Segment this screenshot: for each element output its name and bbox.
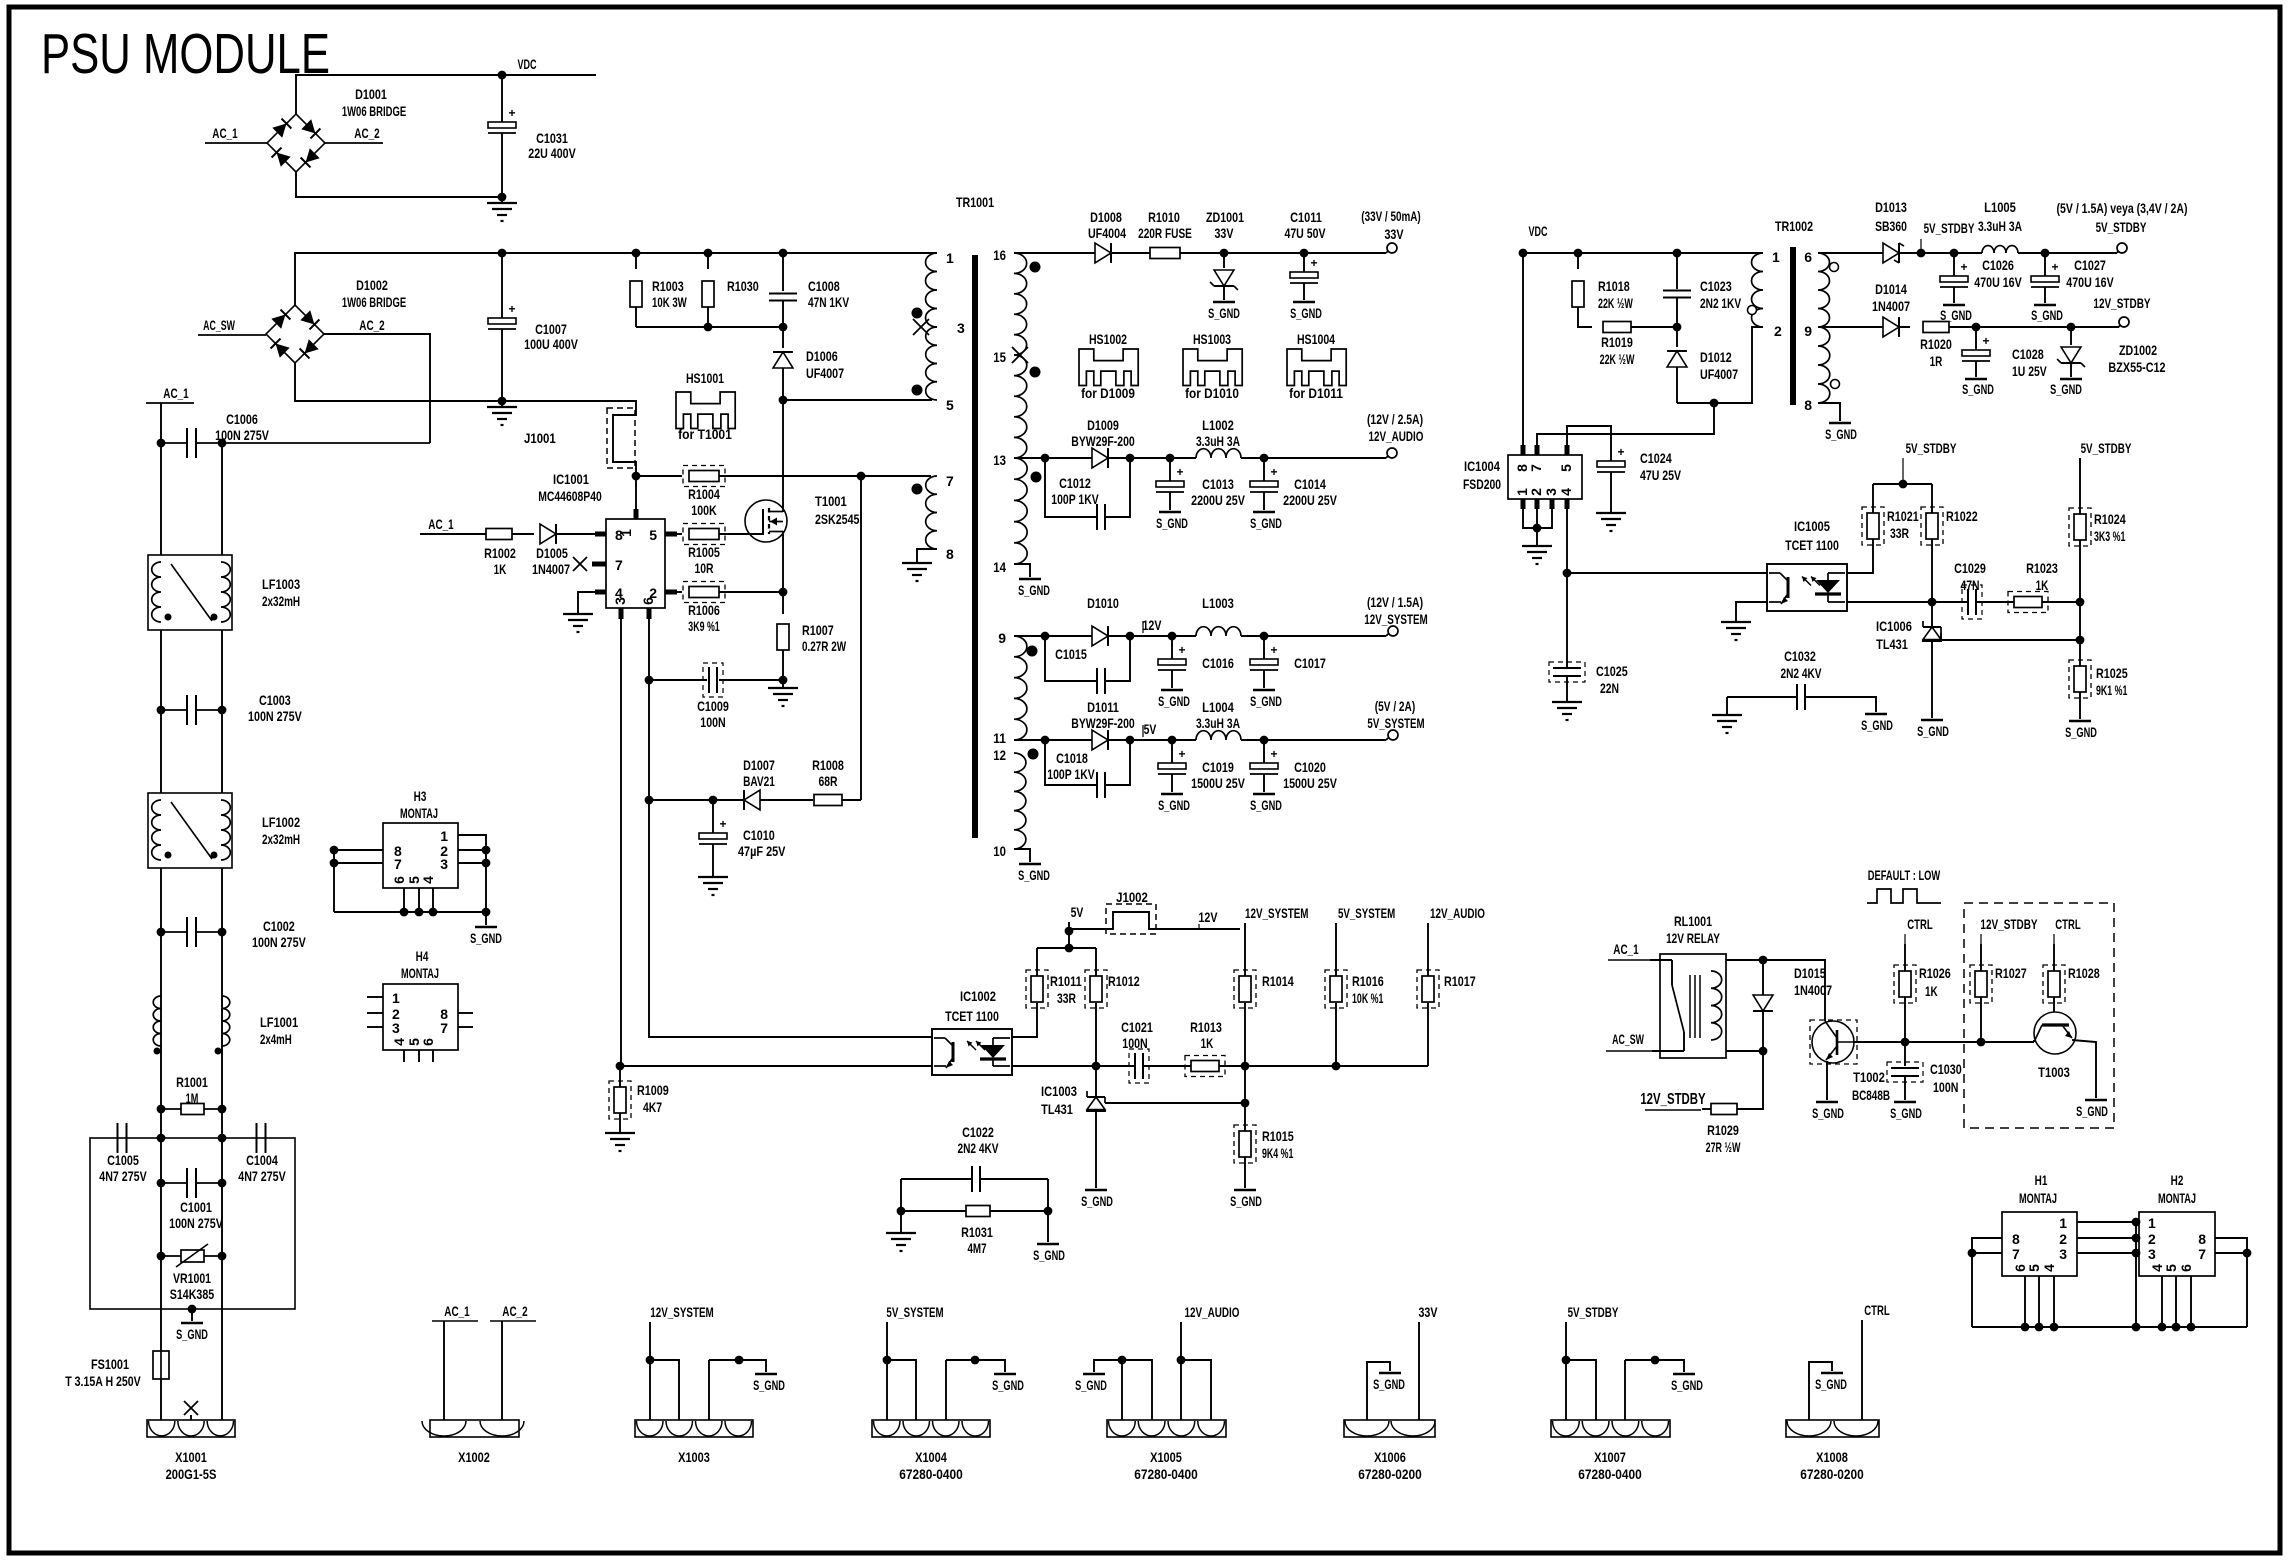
- svg-text:200G1-5S: 200G1-5S: [166, 1466, 217, 1482]
- diode D1011: [1092, 730, 1108, 750]
- svg-text:C1024: C1024: [1640, 450, 1672, 466]
- resistor R1026: [1904, 944, 1906, 971]
- svg-text:7: 7: [440, 1020, 448, 1036]
- svg-text:4: 4: [1558, 488, 1574, 496]
- wire R1011/R1012 top bus: [1037, 947, 1096, 949]
- svg-text:VR1001: VR1001: [173, 1270, 211, 1286]
- svg-text:33V: 33V: [1214, 225, 1234, 241]
- S_GND below C1019: [1161, 793, 1183, 795]
- S_GND below C1032 right: [1865, 713, 1887, 715]
- TR1001 primary winding 1-3: [926, 253, 937, 327]
- wire to TR1001 pin7: [861, 475, 931, 477]
- IC1003 TL431: [1095, 1066, 1097, 1097]
- svg-text:100U 400V: 100U 400V: [524, 336, 578, 352]
- ground at TR1001 pin8: [902, 562, 932, 564]
- svg-text:3: 3: [440, 856, 448, 872]
- relay coil: [1711, 971, 1722, 1040]
- wire source to R1007: [782, 531, 784, 592]
- IC1001 pin 5: [665, 532, 677, 537]
- svg-text:S_GND: S_GND: [1230, 1193, 1262, 1209]
- svg-text:S_GND: S_GND: [1250, 797, 1282, 813]
- svg-text:C1005: C1005: [107, 1152, 139, 1168]
- junction pin6/C1009: [645, 676, 654, 685]
- svg-text:C1023: C1023: [1700, 278, 1732, 294]
- wire 12V_AUDIO row: [1014, 457, 1196, 459]
- S_GND below IC1006: [1921, 719, 1943, 721]
- TR1001 polarity dot: [912, 385, 923, 396]
- svg-text:12V_AUDIO: 12V_AUDIO: [1185, 1304, 1240, 1320]
- IC1004 pin 2: [1535, 499, 1540, 509]
- svg-text:BZX55-C12: BZX55-C12: [2108, 359, 2165, 375]
- S_GND at X1004: [994, 1373, 1016, 1375]
- svg-text:6: 6: [2178, 1264, 2194, 1272]
- svg-text:1W06 BRIDGE: 1W06 BRIDGE: [342, 103, 406, 119]
- svg-text:S_GND: S_GND: [1812, 1105, 1844, 1121]
- wire pin10 to S_GND: [1014, 849, 1030, 862]
- svg-text:T 3.15A H 250V: T 3.15A H 250V: [65, 1373, 141, 1389]
- svg-text:IC1005: IC1005: [1794, 518, 1830, 534]
- svg-text:220R FUSE: 220R FUSE: [1138, 225, 1192, 241]
- svg-text:R1025: R1025: [2096, 665, 2128, 681]
- svg-text:HS1001: HS1001: [686, 370, 724, 386]
- capacitor C1004: [256, 1123, 258, 1153]
- S_GND below R1025: [2069, 720, 2091, 722]
- svg-text:TR1002: TR1002: [1775, 218, 1813, 234]
- svg-text:33V: 33V: [1418, 1304, 1438, 1320]
- opto-isolator IC1002 TCET 1100: [932, 1029, 1012, 1075]
- svg-text:UF4004: UF4004: [1088, 225, 1126, 241]
- svg-text:R1017: R1017: [1444, 973, 1476, 989]
- TR1001 primary winding 3-5: [926, 327, 937, 400]
- svg-text:4: 4: [420, 876, 436, 884]
- svg-text:1K: 1K: [494, 561, 507, 577]
- svg-text:SB360: SB360: [1875, 218, 1907, 234]
- diode D1009: [1092, 448, 1108, 468]
- svg-text:22K ½W: 22K ½W: [1600, 351, 1635, 367]
- svg-text:R1015: R1015: [1262, 1128, 1294, 1144]
- relay core: [1689, 975, 1691, 1038]
- S_GND below C1017: [1253, 689, 1275, 691]
- resistor R1031: [901, 1210, 966, 1212]
- terminal 5V_SYSTEM: [1388, 730, 1398, 740]
- svg-text:IC1002: IC1002: [960, 988, 996, 1004]
- svg-text:IC1004: IC1004: [1464, 458, 1500, 474]
- svg-text:S_GND: S_GND: [1158, 797, 1190, 813]
- svg-text:S_GND: S_GND: [1825, 426, 1857, 442]
- svg-text:RL1001: RL1001: [1674, 913, 1712, 929]
- svg-text:C1015: C1015: [1055, 646, 1087, 662]
- svg-text:1500U 25V: 1500U 25V: [1191, 775, 1245, 791]
- svg-text:X1006: X1006: [1374, 1449, 1406, 1465]
- svg-text:R1020: R1020: [1920, 336, 1952, 352]
- junction C1015 left: [1041, 632, 1050, 641]
- ground at IC1005 input: [1736, 602, 1767, 622]
- bridge rectifier D1001: [267, 114, 325, 172]
- junction 5V: [1065, 927, 1074, 936]
- capacitor C1001: [161, 1182, 186, 1184]
- svg-text:2: 2: [1774, 323, 1782, 339]
- svg-text:1: 1: [946, 250, 954, 266]
- svg-text:CTRL: CTRL: [2055, 916, 2081, 932]
- svg-text:2: 2: [2059, 1231, 2067, 1247]
- wire R1024 junction to R1025: [2079, 602, 2081, 666]
- svg-text:S_GND: S_GND: [2076, 1103, 2108, 1119]
- junction D1002- / C1007: [498, 397, 507, 406]
- TR1002 primary winding 1-2: [1752, 253, 1763, 327]
- svg-text:R1005: R1005: [688, 544, 720, 560]
- S_GND below C1028: [1965, 378, 1987, 380]
- svg-text:5V: 5V: [1071, 904, 1084, 920]
- svg-text:47µF 25V: 47µF 25V: [738, 843, 786, 859]
- S_GND below C1011: [1293, 301, 1315, 303]
- svg-text:L1003: L1003: [1202, 595, 1234, 611]
- svg-text:1500U 25V: 1500U 25V: [1283, 775, 1337, 791]
- svg-text:7: 7: [1528, 464, 1544, 472]
- TR1001 polarity dot: [912, 308, 923, 319]
- S_GND at X1005 left: [1094, 1360, 1122, 1372]
- svg-text:C1011: C1011: [1290, 209, 1322, 225]
- svg-text:100N 275V: 100N 275V: [169, 1215, 223, 1231]
- svg-text:6: 6: [391, 876, 407, 884]
- IC1004 pin 8: [1521, 445, 1526, 455]
- svg-text:(33V / 50mA): (33V / 50mA): [1361, 208, 1420, 224]
- svg-text:1: 1: [2059, 1215, 2067, 1231]
- svg-text:S_GND: S_GND: [1158, 693, 1190, 709]
- wire IC1006 ref to R1024/R1025: [1941, 633, 2080, 640]
- svg-text:12V_AUDIO: 12V_AUDIO: [1369, 428, 1424, 444]
- resistor R1003: [635, 253, 637, 269]
- resistor R1009: [619, 1066, 621, 1087]
- svg-text:2SK2545: 2SK2545: [815, 511, 860, 527]
- H2 bottom pins: [2161, 1276, 2163, 1327]
- wire D1002 - to J1001: [295, 363, 636, 412]
- svg-text:IC1006: IC1006: [1876, 618, 1912, 634]
- svg-text:S_GND: S_GND: [1156, 515, 1188, 531]
- wire D1007 row: [649, 799, 745, 801]
- TR1001 secondary winding 13-14: [1014, 458, 1027, 564]
- svg-text:R1019: R1019: [1601, 334, 1633, 350]
- S_GND below C1026: [1943, 304, 1965, 306]
- junction C1031 bottom: [498, 193, 507, 202]
- resistor R1002: [486, 529, 512, 540]
- H4 stub wires: [367, 996, 383, 998]
- wire snubber bottom: [636, 326, 783, 328]
- svg-text:R1021: R1021: [1887, 508, 1919, 524]
- svg-text:TCET 1100: TCET 1100: [1785, 537, 1839, 553]
- H2 right pins: [2215, 1238, 2247, 1327]
- svg-text:R1010: R1010: [1148, 209, 1180, 225]
- svg-text:C1016: C1016: [1202, 655, 1234, 671]
- svg-text:S_GND: S_GND: [1815, 1376, 1847, 1392]
- junction R1018: [1574, 249, 1583, 258]
- svg-text:AC_SW: AC_SW: [1612, 1031, 1644, 1047]
- wire opto IC1005 output row: [1847, 601, 1968, 603]
- terminal 12V_STDBY: [2119, 317, 2129, 327]
- svg-text:S_GND: S_GND: [1033, 1247, 1065, 1263]
- junction C1012 left: [1041, 454, 1050, 463]
- IC1004 pin4 junction: [1566, 509, 1568, 668]
- IC1004 pin 3: [1550, 499, 1555, 509]
- wire D1001 + to VDC: [296, 75, 596, 114]
- terminal 12V_SYSTEM: [1388, 626, 1398, 636]
- svg-text:MONTAJ: MONTAJ: [401, 965, 439, 981]
- TR1002 secondary winding 9-8: [1818, 327, 1830, 403]
- svg-text:3: 3: [957, 320, 965, 336]
- junction R1030 top: [704, 249, 713, 258]
- svg-text:AC_2: AC_2: [502, 1303, 528, 1319]
- junction C1028: [1972, 323, 1981, 332]
- junction D1009/C1012 right: [1126, 454, 1135, 463]
- svg-text:47U 50V: 47U 50V: [1284, 225, 1326, 241]
- svg-text:1N4007: 1N4007: [532, 561, 570, 577]
- junction R1021/R1022 top: [1899, 480, 1908, 489]
- svg-text:D1001: D1001: [355, 86, 387, 102]
- svg-text:5V_SYSTEM: 5V_SYSTEM: [1338, 905, 1395, 921]
- svg-text:6: 6: [640, 597, 656, 605]
- wire R1008 riser to R1004 junction: [860, 476, 862, 800]
- svg-text:S_GND: S_GND: [176, 1326, 208, 1342]
- svg-text:1K: 1K: [1201, 1035, 1214, 1051]
- diode D1007: [744, 790, 760, 810]
- svg-text:4: 4: [391, 1038, 407, 1046]
- svg-text:S_GND: S_GND: [1373, 1376, 1405, 1392]
- svg-text:D1008: D1008: [1090, 209, 1122, 225]
- junction J1001/pin1/R1004: [632, 472, 641, 481]
- svg-text:R1016: R1016: [1352, 973, 1384, 989]
- svg-text:C1007: C1007: [535, 321, 567, 337]
- resistor R1019: [1603, 322, 1631, 333]
- svg-text:100P 1KV: 100P 1KV: [1047, 766, 1095, 782]
- resistor R1001: [161, 1108, 181, 1110]
- svg-text:2x32mH: 2x32mH: [262, 593, 300, 609]
- svg-text:2200U 25V: 2200U 25V: [1191, 492, 1245, 508]
- svg-text:D1015: D1015: [1794, 965, 1826, 981]
- svg-text:T1001: T1001: [815, 493, 847, 509]
- svg-text:TL431: TL431: [1041, 1101, 1073, 1117]
- svg-text:HS1003: HS1003: [1193, 331, 1231, 347]
- svg-text:C1026: C1026: [1982, 257, 2014, 273]
- svg-text:R1023: R1023: [2026, 560, 2058, 576]
- svg-text:R1013: R1013: [1190, 1019, 1222, 1035]
- svg-text:R1012: R1012: [1108, 973, 1140, 989]
- terminal 33V: [1387, 243, 1397, 253]
- junction R1027/collector: [1977, 1038, 1986, 1047]
- svg-text:R1011: R1011: [1050, 973, 1082, 989]
- junction R1023/R1024: [2076, 598, 2085, 607]
- svg-text:X1004: X1004: [915, 1449, 947, 1465]
- svg-text:5V_SYSTEM: 5V_SYSTEM: [1367, 715, 1424, 731]
- svg-text:2200U 25V: 2200U 25V: [1283, 492, 1337, 508]
- svg-text:ZD1002: ZD1002: [2119, 342, 2157, 358]
- diode D1005: [540, 524, 556, 544]
- svg-text:C1031: C1031: [536, 130, 568, 146]
- svg-text:12V_STDBY: 12V_STDBY: [2093, 295, 2151, 311]
- svg-text:1N4007: 1N4007: [1872, 298, 1910, 314]
- S_GND below T1002: [1826, 1061, 1828, 1100]
- capacitor C1029: [1967, 589, 1969, 615]
- svg-text:R1026: R1026: [1919, 965, 1951, 981]
- svg-text:22N: 22N: [1600, 680, 1619, 696]
- fuse FS1001: [153, 1351, 169, 1379]
- svg-text:BC848B: BC848B: [1852, 1087, 1890, 1103]
- diode D1012: [1676, 327, 1678, 347]
- TR1002 polarity circles secondary: [1830, 263, 1839, 272]
- wire D1001 - to C1031: [296, 172, 502, 197]
- svg-text:D1006: D1006: [806, 348, 838, 364]
- svg-text:S14K385: S14K385: [170, 1286, 215, 1302]
- svg-text:R1027: R1027: [1995, 965, 2027, 981]
- svg-text:4N7 275V: 4N7 275V: [99, 1168, 147, 1184]
- S_GND below R1015: [1234, 1189, 1256, 1191]
- svg-text:+: +: [2051, 260, 2058, 274]
- wire relay to T1002 base: [1763, 960, 1825, 1021]
- svg-text:VDC: VDC: [1528, 223, 1547, 239]
- resistor R1030: [707, 253, 709, 269]
- inductor LF1001: [153, 996, 161, 1046]
- ground below C1024: [1596, 512, 1626, 514]
- terminal 5V_STDBY: [2117, 243, 2127, 253]
- wire drain column: [782, 400, 784, 512]
- svg-text:3: 3: [2148, 1246, 2156, 1262]
- ground below R1009: [605, 1132, 635, 1134]
- capacitor C1005: [117, 1123, 119, 1153]
- capacitor C1009: [649, 679, 707, 681]
- svg-text:12V_SYSTEM: 12V_SYSTEM: [1364, 611, 1428, 627]
- svg-text:12V_SYSTEM: 12V_SYSTEM: [650, 1304, 714, 1320]
- svg-text:C1032: C1032: [1784, 648, 1816, 664]
- resistor R1024: [2079, 458, 2081, 514]
- junction R1003 top: [632, 249, 641, 258]
- svg-text:33R: 33R: [1890, 525, 1909, 541]
- junction R1026/C1030: [1901, 1038, 1910, 1047]
- svg-text:5V: 5V: [1144, 721, 1157, 737]
- diode D1008: [1095, 243, 1111, 263]
- svg-text:S_GND: S_GND: [1250, 693, 1282, 709]
- svg-text:D1014: D1014: [1875, 281, 1907, 297]
- capacitor C1012 (parallel): [1045, 458, 1097, 517]
- svg-text:C1004: C1004: [246, 1152, 278, 1168]
- inductor LF1003: [148, 555, 232, 630]
- svg-text:for T1001: for T1001: [678, 426, 732, 442]
- svg-text:+: +: [1960, 260, 1967, 274]
- TR1001 secondary winding 16-15: [1014, 253, 1027, 355]
- junction snubber/D1006: [779, 323, 788, 332]
- svg-text:1: 1: [1772, 249, 1780, 265]
- svg-text:67280-0400: 67280-0400: [1134, 1466, 1198, 1482]
- svg-text:3.3uH 3A: 3.3uH 3A: [1196, 433, 1240, 449]
- svg-text:C1022: C1022: [962, 1124, 994, 1140]
- svg-text:22K ½W: 22K ½W: [1598, 295, 1633, 311]
- svg-text:7: 7: [615, 557, 623, 573]
- svg-text:2: 2: [1528, 488, 1544, 496]
- ground below C1031: [501, 197, 503, 203]
- svg-text:S_GND: S_GND: [2031, 307, 2063, 323]
- capacitor C1027: [2044, 253, 2046, 276]
- svg-text:for D1011: for D1011: [1289, 385, 1343, 401]
- svg-text:D1007: D1007: [743, 757, 775, 773]
- svg-text:100N: 100N: [1933, 1079, 1958, 1095]
- svg-text:1N4007: 1N4007: [1794, 982, 1832, 998]
- svg-text:R1018: R1018: [1598, 278, 1630, 294]
- resistor R1020: [1923, 322, 1949, 333]
- svg-text:9: 9: [1804, 323, 1812, 339]
- capacitor C1023: [1676, 253, 1678, 289]
- svg-text:16: 16: [993, 247, 1006, 263]
- inductor L1002: [1196, 449, 1241, 458]
- svg-text:5V_STDBY: 5V_STDBY: [2096, 219, 2147, 235]
- relay switch contact: [1671, 960, 1673, 985]
- svg-text:470U 16V: 470U 16V: [1974, 274, 2022, 290]
- capacitor C1014: [1263, 458, 1265, 481]
- S_GND below suppressor box: [191, 1309, 193, 1321]
- svg-text:MONTAJ: MONTAJ: [2158, 1190, 2196, 1206]
- wire T1003 emitter to S_GND: [2072, 1040, 2096, 1098]
- IC1004 pin 7: [1535, 445, 1540, 455]
- svg-text:S_GND: S_GND: [1890, 1105, 1922, 1121]
- svg-text:15: 15: [993, 349, 1006, 365]
- svg-text:R1009: R1009: [637, 1082, 669, 1098]
- svg-text:S_GND: S_GND: [1208, 305, 1240, 321]
- wire D1002 AC2 to C1006 rail: [324, 334, 430, 443]
- capacitor C1002: [161, 931, 186, 933]
- svg-text:68R: 68R: [818, 773, 837, 789]
- svg-text:L1002: L1002: [1202, 417, 1234, 433]
- svg-text:S_GND: S_GND: [1940, 307, 1972, 323]
- svg-text:R1024: R1024: [2094, 511, 2126, 527]
- svg-text:8: 8: [1804, 397, 1812, 413]
- junction C1023/D1012: [1673, 323, 1682, 332]
- svg-text:7: 7: [394, 856, 402, 872]
- svg-text:1K: 1K: [1925, 983, 1938, 999]
- svg-text:C1020: C1020: [1294, 759, 1326, 775]
- connector X1005: [1107, 1420, 1226, 1437]
- junction R1014/main: [1241, 1062, 1250, 1071]
- junction R1006/source: [779, 588, 788, 597]
- terminal 12V_AUDIO: [1387, 448, 1397, 458]
- opto-isolator IC1005 TCET 1100: [1767, 564, 1847, 611]
- IC1001 pin 2: [665, 590, 677, 595]
- zener ZD1001: [1223, 253, 1225, 268]
- junction ref/R1015: [1241, 1099, 1250, 1108]
- IC1004 FSD200 box: [1508, 455, 1582, 499]
- ground below C1025: [1552, 701, 1582, 703]
- svg-text:C1021: C1021: [1121, 1019, 1153, 1035]
- svg-text:+: +: [1178, 643, 1185, 657]
- H1 left pins: [1972, 1238, 2002, 1327]
- junction R1016/main: [1332, 1062, 1341, 1071]
- svg-text:R1029: R1029: [1707, 1122, 1739, 1138]
- S_GND below ZD1001: [1213, 301, 1235, 303]
- wire 5V_STDBY row: [1818, 252, 1982, 254]
- svg-text:2N2 1KV: 2N2 1KV: [1700, 295, 1742, 311]
- junction ZD1002: [2067, 323, 2076, 332]
- capacitor C1006: [161, 442, 186, 444]
- svg-text:R1014: R1014: [1262, 973, 1294, 989]
- ground below C1022 left: [886, 1232, 916, 1234]
- svg-text:5: 5: [1558, 464, 1574, 472]
- inductor LF1002: [148, 793, 232, 868]
- svg-text:3: 3: [612, 597, 628, 605]
- H3 pin wires right: [458, 835, 486, 912]
- S_GND at pin14: [1019, 578, 1041, 580]
- svg-text:AC_2: AC_2: [354, 125, 380, 141]
- svg-text:T1003: T1003: [2038, 1064, 2070, 1080]
- svg-text:+: +: [1270, 643, 1277, 657]
- resistor R1006: [677, 591, 682, 593]
- svg-text:BYW29F-200: BYW29F-200: [1071, 433, 1135, 449]
- svg-text:3: 3: [1543, 488, 1559, 496]
- svg-text:AC_2: AC_2: [359, 317, 385, 333]
